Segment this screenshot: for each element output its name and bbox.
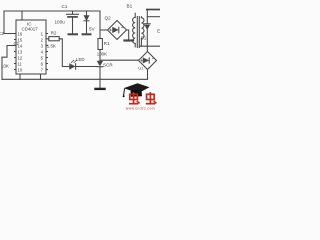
svg-text:C2: C2 (0, 31, 5, 36)
svg-text:www.cndzz.com: www.cndzz.com (126, 106, 155, 110)
svg-text:R2: R2 (51, 30, 57, 35)
svg-text:10: 10 (18, 67, 23, 72)
svg-text:C1: C1 (62, 4, 68, 9)
svg-text:100K: 100K (97, 52, 107, 57)
svg-text:5V: 5V (89, 27, 96, 32)
svg-text:C2: C2 (14, 41, 20, 46)
svg-text:U1: U1 (138, 65, 144, 70)
svg-text:13: 13 (18, 49, 23, 54)
svg-text:Q2: Q2 (105, 16, 112, 21)
svg-text:B1: B1 (127, 4, 133, 9)
svg-text:E: E (157, 29, 160, 34)
svg-text:12: 12 (18, 55, 23, 60)
svg-text:1.5K: 1.5K (47, 43, 56, 48)
svg-text:CD4017: CD4017 (22, 27, 39, 32)
svg-text:LED: LED (76, 57, 85, 62)
svg-text:SCR: SCR (103, 63, 113, 68)
svg-text:R1: R1 (104, 41, 110, 46)
svg-text:16: 16 (18, 31, 23, 36)
svg-text:10K: 10K (1, 64, 9, 69)
svg-text:D1: D1 (141, 36, 147, 41)
svg-text:11: 11 (18, 61, 23, 66)
svg-text:100u: 100u (55, 20, 66, 25)
